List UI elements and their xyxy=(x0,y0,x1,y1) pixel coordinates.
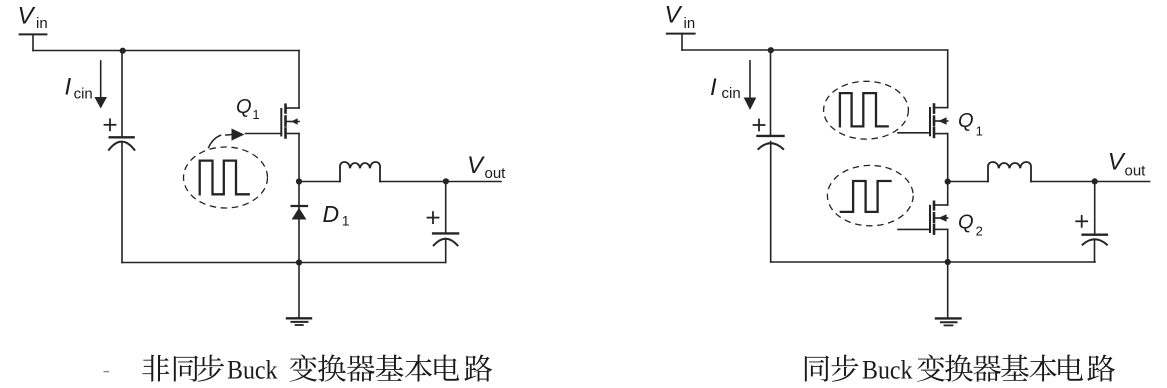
inductor L (right) xyxy=(988,162,1031,182)
svg-text:1: 1 xyxy=(342,213,350,229)
svg-text:D: D xyxy=(323,201,340,227)
svg-text:1: 1 xyxy=(252,107,259,122)
capacitor Cin (left) xyxy=(110,136,134,138)
node Vin (left) terminal bar xyxy=(20,33,47,35)
junction switch node (right) xyxy=(945,179,951,185)
label Vout (left) xyxy=(467,152,506,182)
transistor Q2 (right) symbol xyxy=(930,202,948,234)
wire top rail (left) xyxy=(33,50,299,52)
wire switch node to inductor (right) xyxy=(948,181,988,183)
wire Q2 source to bottom rail (right) xyxy=(947,229,949,262)
wire Cout to bottom rail (right) xyxy=(1094,240,1096,263)
svg-text:I: I xyxy=(710,74,717,101)
capacitor Cout plus sign (left) xyxy=(428,217,439,219)
wire inductor to Vout (right) xyxy=(1031,181,1095,183)
label Icin (left) xyxy=(65,74,93,103)
svg-text:in: in xyxy=(684,15,696,32)
arrow Icin current (right) xyxy=(749,61,751,98)
svg-text:cin: cin xyxy=(74,85,93,102)
transistor Q1 (left) drain wire xyxy=(298,51,300,109)
node Vin (right) terminal bar xyxy=(667,33,695,35)
wire Q1 gate lead (right) xyxy=(898,132,930,134)
svg-text:V: V xyxy=(665,2,683,29)
wire ground stub (right) xyxy=(947,262,949,318)
capacitor Cout (left) xyxy=(433,232,458,234)
wire Vin drop (right) xyxy=(681,34,683,50)
wire left rail to Cin (left) xyxy=(121,51,123,138)
wire switch node to inductor (left) xyxy=(299,181,340,183)
diode D1 wire (left) xyxy=(298,182,300,263)
junction bottom rail (right) xyxy=(945,259,951,265)
svg-text:out: out xyxy=(485,165,507,182)
svg-text:V: V xyxy=(1108,148,1126,175)
wire Q2 drain (right) xyxy=(947,182,949,206)
node Vin (left) label xyxy=(18,3,48,32)
junction top rail / Cin (right) xyxy=(768,47,774,53)
label Icin (right) xyxy=(710,74,741,102)
arrow gate drive dashed (left) xyxy=(209,129,245,148)
capacitor Cin plus sign (left) xyxy=(105,124,116,126)
node Vin (right) label xyxy=(665,2,696,32)
svg-text:Q: Q xyxy=(236,96,252,118)
wire Q1 source to switch node (left) xyxy=(298,134,300,182)
junction Vout node (left) xyxy=(443,178,449,184)
ellipse gate signal Q2 (right) xyxy=(827,165,913,225)
wire top rail (right) xyxy=(682,49,948,51)
diode D1 (left) xyxy=(292,206,307,220)
waveform PWM Q2 (right) xyxy=(841,181,891,212)
junction bottom rail / diode (left) xyxy=(296,259,302,265)
wire inductor to Vout (left) xyxy=(380,181,446,183)
wire left rail to Cin (right) xyxy=(770,50,772,136)
svg-text:V: V xyxy=(18,3,36,30)
junction Vout node (right) xyxy=(1092,178,1098,184)
wire bottom rail (left) xyxy=(122,262,446,264)
wire Q1 gate lead (left) xyxy=(246,133,282,135)
wire bottom rail (right) xyxy=(771,261,1095,263)
svg-text:2: 2 xyxy=(976,223,983,238)
svg-text:in: in xyxy=(36,15,48,32)
wire Vout node to Cout (left) xyxy=(445,182,447,234)
wire Vout stub (left) xyxy=(446,181,501,183)
svg-text:Buck: Buck xyxy=(227,354,278,384)
stray mark (left caption) xyxy=(104,371,110,372)
capacitor Cin plus sign (right) xyxy=(754,124,765,126)
label Vout (right) xyxy=(1108,148,1146,179)
ellipse gate signal (left) xyxy=(184,147,268,208)
ground (left) xyxy=(287,318,311,325)
svg-text:cin: cin xyxy=(722,85,741,102)
svg-text:out: out xyxy=(1125,163,1147,180)
wire Vout stub (right) xyxy=(1095,181,1150,183)
capacitor Cout plus sign (right) xyxy=(1076,220,1087,222)
svg-text:1: 1 xyxy=(976,123,983,138)
junction switch node (left) xyxy=(296,178,302,184)
label Q1 (right) xyxy=(958,110,983,138)
label D1 (left) xyxy=(323,201,350,229)
svg-text:V: V xyxy=(467,152,485,179)
transistor Q1 (right) symbol xyxy=(930,105,948,137)
caption left: 非同步 Buck 变换器基本电路 xyxy=(142,355,169,382)
ground (right) xyxy=(936,318,961,325)
label Q2 (right) xyxy=(958,211,983,238)
capacitor Cout (right) xyxy=(1083,233,1107,235)
ellipse gate signal Q1 (right) xyxy=(824,81,909,139)
wire ground stub (left) xyxy=(298,263,300,319)
wire Cin to bottom rail (left) xyxy=(121,143,123,263)
svg-text:Q: Q xyxy=(958,110,974,132)
capacitor Cin (right) xyxy=(758,135,784,137)
svg-text:Q: Q xyxy=(958,211,974,233)
svg-text:Buck: Buck xyxy=(862,354,913,384)
caption right: 同步 Buck 变换器基本电路 xyxy=(805,356,829,382)
wire Q2 gate lead (right) xyxy=(898,228,930,230)
wire Q1 drain (right) xyxy=(947,50,949,108)
inductor L (left) xyxy=(340,162,380,182)
label Q1 (left) xyxy=(236,96,260,122)
wire Cout to bottom rail (left) xyxy=(445,239,447,263)
wire Vin drop (left) xyxy=(32,34,34,50)
waveform PWM (left) xyxy=(200,161,249,195)
waveform PWM Q1 (right) xyxy=(840,93,888,126)
transistor Q1 (left) symbol xyxy=(281,105,299,138)
wire Vout node to Cout (right) xyxy=(1094,182,1096,235)
wire Cin to bottom rail (right) xyxy=(770,142,772,263)
wire Q1 source to switch node (right) xyxy=(947,134,949,182)
junction top rail / Cin (left) xyxy=(120,48,126,54)
arrow Icin current (left) xyxy=(100,61,102,98)
svg-text:I: I xyxy=(65,74,72,101)
